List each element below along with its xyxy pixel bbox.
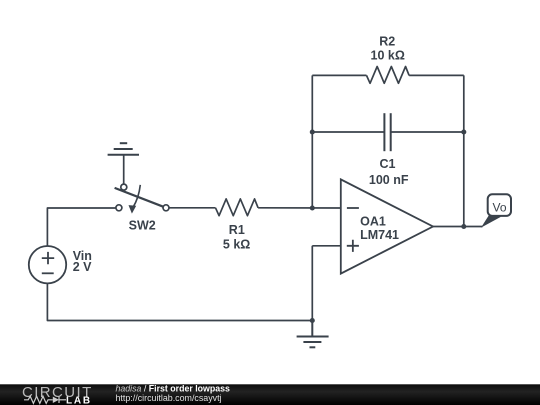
svg-text:R1: R1 [229, 223, 245, 237]
svg-text:100 nF: 100 nF [369, 173, 409, 187]
svg-text:Vo: Vo [492, 200, 506, 214]
svg-text:LAB: LAB [66, 395, 92, 405]
svg-text:SW2: SW2 [129, 219, 156, 233]
svg-text:OA1: OA1 [360, 215, 386, 229]
svg-text:R2: R2 [379, 35, 395, 49]
svg-text:2 V: 2 V [73, 260, 92, 274]
svg-text:10 kΩ: 10 kΩ [371, 49, 405, 63]
svg-text:http://circuitlab.com/csayvtj: http://circuitlab.com/csayvtj [116, 393, 222, 403]
svg-text:5 kΩ: 5 kΩ [223, 237, 250, 251]
svg-text:hadisa / First order lowpass: hadisa / First order lowpass [116, 383, 231, 393]
svg-text:LM741: LM741 [360, 228, 399, 242]
svg-text:C1: C1 [380, 157, 396, 171]
